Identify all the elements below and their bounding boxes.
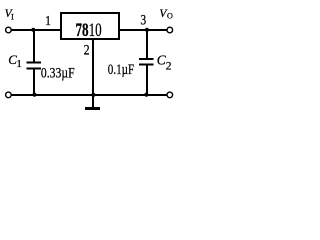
node: C2 top junction	[145, 28, 149, 32]
wire: bottom rail	[11, 94, 168, 96]
ground	[85, 95, 100, 110]
capacitor C2	[139, 30, 153, 95]
label VI	[5, 8, 14, 22]
svg-text:3: 3	[140, 11, 146, 28]
wire: pin 3 to output terminal	[119, 29, 167, 31]
svg-text:0.1µF: 0.1µF	[108, 60, 134, 77]
node: C1 top junction	[31, 28, 35, 32]
label 7810	[76, 18, 102, 40]
svg-text:2: 2	[166, 60, 172, 72]
node: C1 bottom junction	[32, 93, 36, 97]
terminal: VO output	[167, 27, 173, 33]
regulator U1 box	[61, 13, 119, 39]
value 0.1uF	[108, 60, 134, 77]
svg-text:O: O	[167, 12, 173, 21]
label VO	[159, 8, 173, 21]
label C1	[8, 52, 22, 70]
terminal: bottom right	[167, 92, 173, 98]
terminal: VI input	[6, 27, 12, 33]
pin label 2	[84, 41, 90, 58]
pin label 3	[140, 11, 146, 28]
svg-text:7810: 7810	[76, 18, 102, 40]
wire: pin 2 lead	[92, 40, 94, 95]
terminal: bottom left	[6, 92, 12, 98]
label C2	[157, 52, 172, 72]
svg-text:0.33µF: 0.33µF	[41, 64, 75, 81]
svg-text:1: 1	[45, 12, 51, 28]
node: C2 bottom junction	[144, 93, 148, 97]
wire: input terminal to pin 1	[11, 29, 62, 31]
value 0.33uF	[41, 64, 75, 81]
svg-text:I: I	[11, 12, 14, 22]
node: ground junction	[91, 93, 95, 97]
pin label 1	[45, 12, 51, 28]
capacitor C1	[27, 30, 42, 95]
svg-text:1: 1	[16, 58, 22, 70]
svg-text:2: 2	[84, 41, 90, 58]
